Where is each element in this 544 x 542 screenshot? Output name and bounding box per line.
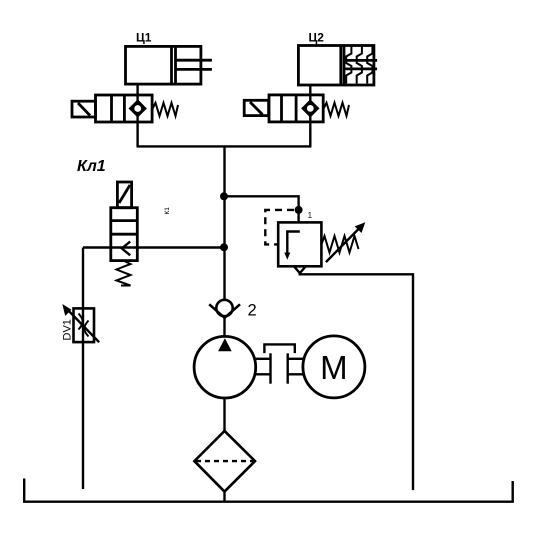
spring <box>321 236 358 253</box>
flow arrow pointing left <box>122 242 130 256</box>
svg-text:Кл1: Кл1 <box>77 158 106 175</box>
wire left valve to top bus <box>136 116 138 147</box>
cylinder Ц1 <box>126 46 212 84</box>
solenoid coil <box>244 100 268 115</box>
svg-text:Ц2: Ц2 <box>309 31 325 45</box>
wire check valve to pump <box>223 318 225 337</box>
wire pump to filter <box>223 398 225 431</box>
wire DV1 to tank <box>82 342 84 489</box>
wire main pressure line <box>223 146 225 300</box>
valve body <box>269 95 323 122</box>
wire Кл1 branch down to DV1 <box>82 248 84 343</box>
pump <box>194 336 256 398</box>
solenoid valve under Ц1 <box>72 95 178 122</box>
junction node (Кл1 branch) <box>220 243 228 251</box>
check valve 2 <box>209 300 240 318</box>
return springs <box>346 47 351 84</box>
solenoid coil <box>72 101 96 117</box>
spring <box>323 103 349 116</box>
throttle valve DV1 <box>62 304 99 342</box>
svg-text:M: M <box>320 349 348 386</box>
relief valve 1 <box>278 222 365 273</box>
throttle arcs <box>79 314 83 330</box>
internal flow arrow <box>287 232 300 255</box>
wire junction to relief valve inlet <box>225 196 299 222</box>
adjustment arrow <box>67 309 100 343</box>
svg-text:К1: К1 <box>164 207 171 215</box>
adjustment arrow <box>326 228 360 263</box>
solenoid coil <box>117 182 131 208</box>
svg-text:Ц1: Ц1 <box>136 31 152 45</box>
valve Кл1 <box>111 182 138 286</box>
wire filter to tank <box>223 490 225 502</box>
check valve symbol: diamond + circle <box>303 101 317 115</box>
bottom port V <box>294 266 306 273</box>
svg-text:1: 1 <box>308 210 313 220</box>
spring below <box>117 261 131 286</box>
shaft coupling <box>256 344 304 383</box>
filter <box>194 431 255 492</box>
valve body <box>111 208 138 261</box>
wire Ц2 port to right valve <box>309 85 311 101</box>
svg-text:DV1: DV1 <box>62 319 74 340</box>
svg-text:2: 2 <box>248 302 257 320</box>
pilot line (dashed) <box>265 210 294 245</box>
junction node (relief pilot tap) <box>295 206 303 214</box>
wire relief outlet to tank return <box>300 272 413 490</box>
wire right valve to top bus <box>309 115 311 146</box>
valve body <box>96 95 153 122</box>
wire branch to valve Кл1 <box>83 246 225 248</box>
wire top bus <box>137 145 312 147</box>
cylinder Ц2 <box>298 46 377 86</box>
solenoid valve under Ц2 <box>244 95 349 122</box>
junction node <box>220 192 228 200</box>
motor M <box>303 336 365 398</box>
spring <box>152 103 178 116</box>
wire Ц1 port to left valve <box>136 84 138 101</box>
check valve symbol: diamond + circle <box>131 101 145 115</box>
tank <box>24 479 513 502</box>
